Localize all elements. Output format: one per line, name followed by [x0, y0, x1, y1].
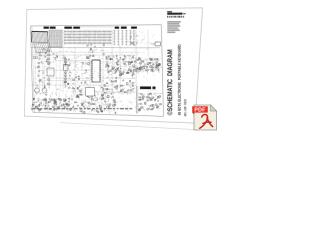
svg-text:PDF: PDF [194, 107, 205, 113]
